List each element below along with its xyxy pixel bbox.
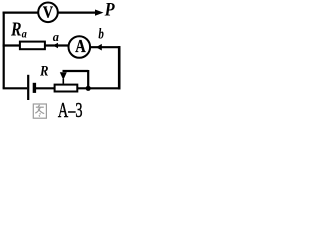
resistor Ra — [20, 42, 45, 50]
junction dot — [86, 86, 91, 91]
caption hanzi tu (figure) gray glyph — [33, 104, 46, 118]
wire slider horizontal — [63, 70, 89, 72]
wire left to battery — [3, 87, 28, 89]
wire Ra to ammeter — [45, 44, 69, 46]
node b arrow — [96, 44, 102, 51]
svg-text:V: V — [43, 3, 54, 22]
ammeter A — [69, 36, 91, 58]
svg-text:a: a — [53, 30, 59, 44]
probe arrow tip — [95, 10, 104, 16]
wire bottom right — [77, 87, 120, 89]
svg-text:a: a — [22, 27, 27, 41]
voltmeter V — [38, 3, 58, 23]
resistor R — [55, 85, 78, 92]
wire voltmeter to probe arrow — [58, 12, 97, 14]
wire battery to R — [36, 87, 56, 89]
wire row2 left — [3, 44, 20, 46]
wire left vertical — [3, 12, 5, 89]
label Ra — [10, 18, 27, 40]
svg-text:R: R — [10, 18, 21, 40]
battery negative plate — [33, 83, 36, 93]
svg-text:P: P — [104, 0, 115, 21]
rheostat slider arrow — [60, 72, 67, 84]
wire slider vertical — [87, 70, 89, 88]
svg-text:A–3: A–3 — [58, 98, 83, 120]
svg-text:R: R — [39, 64, 49, 80]
node a arrow — [53, 43, 58, 49]
battery positive plate — [27, 75, 29, 100]
wire right vertical — [118, 46, 121, 89]
svg-text:b: b — [98, 26, 104, 42]
svg-text:A: A — [75, 36, 86, 56]
wire ammeter to right corner — [90, 46, 121, 48]
wire top horizontal — [3, 12, 39, 14]
